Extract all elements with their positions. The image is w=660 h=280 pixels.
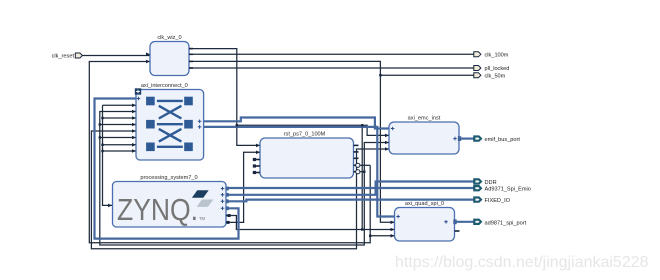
port pll_locked xyxy=(474,66,510,73)
interconnect crossbar icon xyxy=(146,97,193,151)
emc EMC_INTF plus and stub xyxy=(453,137,457,141)
wire: clk_wiz pin2 to clk_100m port xyxy=(189,53,474,55)
rst right pins xyxy=(354,145,360,174)
svg-text:processing_system7_0: processing_system7_0 xyxy=(140,175,197,181)
quad AXI_LITE plus xyxy=(396,215,400,219)
svg-text:DDR: DDR xyxy=(485,180,497,186)
wire: clk_wiz pin3 50M clock xyxy=(189,61,474,222)
port clk_100m xyxy=(474,52,509,59)
zynq right bus pins xyxy=(221,187,225,210)
svg-text:clk_50m: clk_50m xyxy=(485,74,506,80)
svg-text:clk_wiz_0: clk_wiz_0 xyxy=(157,35,181,41)
bus wire: M01_AXI to quad spi xyxy=(204,127,395,217)
clk_wiz pins xyxy=(146,48,193,69)
svg-text:clk_100m: clk_100m xyxy=(485,53,509,59)
svg-text:axi_emc_inst: axi_emc_inst xyxy=(408,116,441,122)
block processing_system7_0 xyxy=(113,175,227,227)
port DDR xyxy=(474,179,497,186)
port FIXED_IO xyxy=(474,197,511,204)
bus wire: zynq FIXED_IO xyxy=(226,200,474,202)
port ad9871_spi_port xyxy=(474,219,527,226)
block axi_quad_spi_0 xyxy=(395,201,455,241)
junction dots xyxy=(99,74,382,237)
interconnect expand box xyxy=(135,88,141,94)
bus wire: quad spi to port xyxy=(455,221,474,223)
port clk_50m xyxy=(474,73,506,80)
wire: fclk net vertical x=91.4 xyxy=(91,131,389,249)
bus wire: emc to emif port xyxy=(459,138,474,140)
svg-text:emif_bus_port: emif_bus_port xyxy=(485,137,521,143)
wire: interconnect reset net vertical x=99.8 xyxy=(100,112,389,246)
emc input arrows xyxy=(385,134,389,151)
svg-text:clk_reset: clk_reset xyxy=(52,54,75,60)
quad input arrows xyxy=(391,221,395,238)
interconnect input pin arrows xyxy=(132,104,136,153)
svg-text:axi_interconnect_0: axi_interconnect_0 xyxy=(141,83,188,89)
svg-text:Ad9371_Spi_Emio: Ad9371_Spi_Emio xyxy=(485,187,531,193)
svg-text:pll_locked: pll_locked xyxy=(485,66,510,72)
wire: 100M clock from clk_wiz pin1 xyxy=(189,49,389,230)
quad right lower stub xyxy=(455,230,460,232)
port emif_bus_port xyxy=(474,136,521,143)
svg-text:ZYNQ.: ZYNQ. xyxy=(117,193,198,227)
quad SPI_0 plus and stub xyxy=(444,220,448,224)
ZYNQ logo xyxy=(117,190,213,227)
block rst_ps7_0_100M xyxy=(260,132,354,179)
svg-text:TM: TM xyxy=(199,216,206,221)
svg-text:https://blog.csdn.net/jingjian: https://blog.csdn.net/jingjiankai5228 xyxy=(395,254,649,271)
bus wire: M00_AXI to emc xyxy=(204,118,389,129)
zynq left pin arrow xyxy=(108,204,112,208)
interconnect M00 M01 plus xyxy=(198,120,202,129)
bus wire: zynq Ad9371 xyxy=(226,187,474,189)
svg-text:rst_ps7_0_100M: rst_ps7_0_100M xyxy=(284,132,326,138)
bus wire: zynq DDR xyxy=(226,182,474,195)
wire: interconnect clock net vertical x=102.5 xyxy=(103,105,137,205)
wire: clk_wiz pin4 to pll_locked port xyxy=(189,67,474,69)
block axi_interconnect_0 xyxy=(136,83,204,160)
wire: resetn loop left vertical x=89.3 xyxy=(89,62,370,243)
svg-text:FIXED_IO: FIXED_IO xyxy=(485,198,511,204)
wire: rst peripheral_aresetn ring outputs xyxy=(359,165,395,236)
svg-text:ad9871_spi_port: ad9871_spi_port xyxy=(485,220,527,226)
wire: clk_reset to clk_wiz xyxy=(82,55,150,57)
zynq bottom right pin xyxy=(226,222,229,224)
interconnect S00 plus xyxy=(137,97,141,101)
port clk_reset xyxy=(52,53,83,60)
block clk_wiz_0 xyxy=(150,35,189,76)
wire: zynq bottom pin reset/fclk xyxy=(226,152,395,229)
port Ad9371_Spi_Emio xyxy=(474,185,531,192)
svg-text:axi_quad_spi_0: axi_quad_spi_0 xyxy=(405,201,444,207)
emc S_AXI_MEM plus xyxy=(391,127,395,131)
zynq right lower stub pin xyxy=(226,215,229,217)
bus wire: zynq S00 wrap xyxy=(95,99,239,239)
rst left pins xyxy=(253,144,260,174)
block axi_emc_inst xyxy=(389,116,459,155)
